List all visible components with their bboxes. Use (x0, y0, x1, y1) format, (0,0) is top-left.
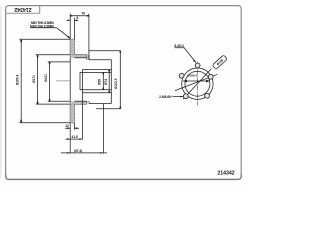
dim D265.4 line (20, 39, 22, 122)
PCD diagonal dim line (175, 74, 218, 90)
title box top-left (6, 6, 40, 13)
lug hole lower-right (205, 93, 210, 98)
svg-text:Ø102.5: Ø102.5 (114, 78, 118, 89)
middle circle (185, 71, 210, 96)
leader 5-D13 (175, 48, 196, 63)
lug hole upper-right (208, 74, 213, 79)
scan artifact left edge (0, 6, 2, 178)
ext line D121 bottom (48, 100, 70, 102)
friction ring hatch top (70, 39, 74, 55)
outer border frame (6, 6, 242, 180)
svg-text:214342: 214342 (14, 6, 31, 12)
ext line D121 top (48, 61, 70, 63)
lug hole lower-left (183, 94, 188, 99)
ext/wall line y104.1 (36, 103, 87, 105)
svg-text:(67.4): (67.4) (74, 149, 82, 153)
top dim 9: arrows outside (67, 19, 79, 21)
disc right face bottom (73, 104, 75, 123)
rotated label box (212, 55, 227, 69)
svg-text:5-Ø13: 5-Ø13 (174, 44, 184, 48)
lug hole top (195, 63, 200, 68)
top dim 70: dim line (70, 15, 89, 17)
ext line for dim C bottom (96, 108, 121, 110)
svg-text:MAX DIA 173MM: MAX DIA 173MM (30, 24, 54, 28)
hat wall top band hatch (70, 55, 86, 58)
svg-text:70: 70 (81, 11, 85, 15)
svg-text:214342: 214342 (217, 171, 234, 177)
leader 2-M8 (173, 96, 183, 98)
friction ring hatch bottom (70, 104, 74, 123)
dim 41.8 ext left (69, 130, 71, 140)
dim 41.8 line (65, 138, 82, 140)
svg-text:41.8: 41.8 (71, 135, 77, 139)
frame bottom shadow (6, 174, 242, 180)
dim D171 line (37, 55, 39, 104)
step top hatch (87, 55, 89, 60)
outer circle (182, 68, 213, 99)
top dim 70 left extension (69, 14, 71, 40)
thickness mini-dim arrows (65, 127, 79, 129)
note leader diagonal (57, 28, 71, 39)
svg-text:Ø58: Ø58 (97, 79, 101, 85)
svg-text:9: 9 (76, 16, 78, 20)
svg-text:Ø108: Ø108 (216, 58, 225, 66)
top dim 70 right extension (88, 14, 90, 60)
svg-text:Ø74: Ø74 (104, 79, 108, 85)
bore outer verticals (80, 70, 82, 93)
bore inner pair (80, 72, 111, 89)
svg-text:12: 12 (65, 124, 69, 128)
vertical centerline (196, 62, 198, 106)
bore outer pair (82, 70, 111, 93)
dim 67.4 ext right (102, 104, 104, 154)
thickness mini-dim ext lines (70, 123, 74, 130)
dim C D102.5 (119, 51, 121, 109)
dim B D74 (108, 70, 110, 93)
lug hole upper-left (179, 73, 184, 78)
flange bottom edge (89, 103, 111, 105)
ext line for dim C top (89, 50, 121, 52)
svg-text:Ø171: Ø171 (32, 75, 36, 83)
M8 axis diagonal (183, 69, 211, 100)
dim D121 line (49, 62, 51, 101)
dim 67.4 ext left (69, 140, 71, 154)
top dim 9 right extension (74, 18, 76, 39)
bottom edge + ext (19, 122, 74, 124)
note leader underline (30, 27, 56, 29)
svg-text:Ø121: Ø121 (44, 74, 48, 82)
svg-text:Ø190.5: Ø190.5 (187, 73, 197, 77)
horizontal dia dimension with outward arrows (183, 80, 210, 82)
dim 67.4 line (61, 152, 107, 154)
mounting face (110, 60, 112, 104)
disc right face top (73, 39, 75, 58)
step bottom hatch (87, 101, 89, 103)
hat wall bottom band hatch (70, 101, 86, 104)
svg-text:Ø265.4: Ø265.4 (16, 75, 20, 86)
centerline axis (56, 80, 70, 82)
top edge + ext to D265.4 (19, 38, 74, 40)
svg-text:2-M8-6H: 2-M8-6H (159, 95, 172, 99)
dim 41.8 ext right from bore (81, 93, 83, 140)
dim A D58 (102, 72, 104, 89)
ext/wall line y54.8 (36, 54, 87, 56)
disc left face (69, 39, 71, 123)
flange top edge (89, 59, 111, 61)
